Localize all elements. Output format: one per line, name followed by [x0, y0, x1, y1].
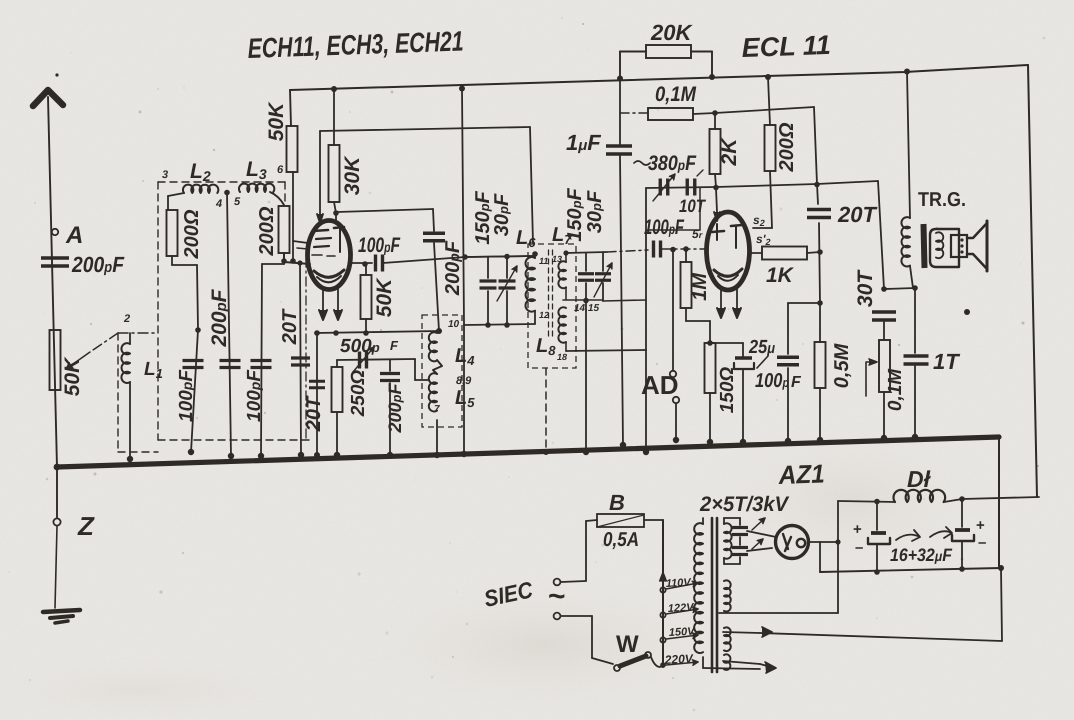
- svg-text:10T: 10T: [679, 196, 707, 216]
- svg-text:500p: 500p: [340, 336, 380, 357]
- svg-text:122V: 122V: [668, 602, 696, 615]
- svg-text:200pF: 200pF: [442, 240, 464, 296]
- svg-text:150Ω: 150Ω: [717, 367, 738, 414]
- svg-text:200pF: 200pF: [71, 252, 124, 277]
- svg-text:30K: 30K: [341, 155, 364, 195]
- svg-text:F: F: [390, 338, 399, 353]
- svg-text:AZ1: AZ1: [777, 458, 825, 490]
- svg-text:1K: 1K: [766, 264, 795, 287]
- svg-text:16+32μF: 16+32μF: [890, 545, 953, 565]
- svg-text:1T: 1T: [933, 349, 960, 374]
- svg-text:110V: 110V: [666, 577, 693, 590]
- svg-text:200Ω: 200Ω: [256, 206, 278, 256]
- svg-text:5: 5: [234, 196, 241, 208]
- svg-text:TR.G.: TR.G.: [918, 189, 966, 211]
- svg-text:A: A: [65, 222, 83, 249]
- svg-text:2K: 2K: [718, 137, 741, 167]
- svg-text:~: ~: [548, 580, 566, 613]
- svg-text:20T: 20T: [279, 308, 301, 345]
- svg-text:13: 13: [552, 254, 562, 264]
- svg-text:100pF: 100pF: [244, 369, 265, 422]
- svg-text:200pF: 200pF: [385, 383, 405, 434]
- svg-text:100pF: 100pF: [358, 234, 401, 257]
- svg-text:–: –: [855, 539, 863, 556]
- svg-text:50K: 50K: [61, 356, 84, 396]
- svg-text:10: 10: [448, 319, 460, 330]
- svg-text:150pF: 150pF: [564, 187, 586, 241]
- svg-text:F: F: [791, 374, 802, 391]
- svg-text:B: B: [609, 490, 625, 515]
- svg-text:200pF: 200pF: [208, 288, 231, 347]
- svg-text:50K: 50K: [265, 101, 288, 141]
- svg-text:0,5M: 0,5M: [831, 342, 853, 388]
- svg-text:220V: 220V: [663, 651, 694, 667]
- svg-text:Dł: Dł: [907, 466, 932, 492]
- svg-text:30T: 30T: [854, 269, 877, 307]
- svg-text:0,5A: 0,5A: [603, 529, 639, 551]
- svg-text:3: 3: [162, 169, 168, 181]
- svg-text:12: 12: [539, 310, 549, 320]
- svg-text:250Ω: 250Ω: [348, 370, 369, 418]
- svg-text:380pF: 380pF: [648, 152, 697, 175]
- svg-text:0,1M: 0,1M: [885, 368, 906, 411]
- svg-text:20T: 20T: [837, 202, 877, 227]
- svg-text:30pF: 30pF: [491, 193, 513, 236]
- svg-text:100pF: 100pF: [644, 216, 685, 239]
- svg-text:Z: Z: [77, 511, 95, 541]
- svg-text:7: 7: [434, 404, 440, 415]
- svg-text:5r: 5r: [692, 227, 703, 241]
- svg-text:ECL 11: ECL 11: [741, 30, 831, 63]
- svg-text:+: +: [976, 517, 985, 534]
- svg-text:20K: 20K: [650, 20, 693, 45]
- svg-text:20T: 20T: [303, 395, 325, 432]
- svg-text:2: 2: [123, 313, 130, 325]
- svg-text:1M: 1M: [689, 272, 711, 301]
- svg-text:200Ω: 200Ω: [776, 122, 798, 172]
- svg-text:+: +: [853, 521, 862, 538]
- svg-text:30pF: 30pF: [584, 190, 606, 233]
- svg-text:25μ: 25μ: [748, 337, 775, 358]
- svg-text:AD: AD: [641, 370, 679, 400]
- svg-text:0,1M: 0,1M: [655, 83, 696, 106]
- svg-text:200Ω: 200Ω: [181, 209, 203, 259]
- svg-text:18: 18: [557, 352, 567, 362]
- svg-text:50K: 50K: [373, 277, 396, 317]
- svg-text:14,15: 14,15: [574, 303, 599, 314]
- svg-text:6: 6: [277, 164, 284, 176]
- svg-text:W: W: [616, 631, 639, 658]
- svg-text:4: 4: [215, 198, 222, 210]
- svg-text:2×5T/3kV: 2×5T/3kV: [699, 493, 790, 516]
- svg-text:100pF: 100pF: [176, 369, 197, 422]
- svg-text:–: –: [978, 534, 986, 551]
- svg-text:11: 11: [539, 256, 548, 266]
- svg-text:150V: 150V: [669, 626, 697, 639]
